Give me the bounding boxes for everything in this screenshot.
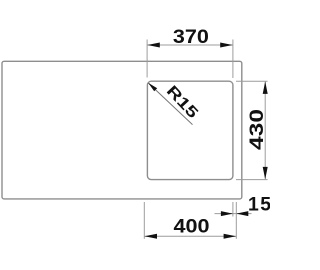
- dim 400 arrow left: [145, 234, 158, 239]
- dim 370 arrow right: [220, 43, 233, 48]
- dim 15 tail left: [215, 213, 233, 215]
- svg-text:400: 400: [174, 216, 210, 238]
- dim 430 extension line bottom: [236, 179, 268, 181]
- dim 15 arrow right (outside, pointing left): [236, 211, 248, 216]
- dim 430 extension line top: [236, 80, 268, 82]
- dim 400 dimension line: [145, 235, 236, 237]
- sink bowl: [147, 81, 233, 179]
- leader R15 arrowhead: [148, 83, 157, 92]
- dim 430 arrow top: [263, 81, 268, 94]
- dim 370 dimension line: [147, 44, 232, 46]
- dim 370 arrow left: [147, 43, 160, 48]
- leader R15 line: [149, 83, 193, 124]
- dim 15 tail right: [236, 213, 251, 215]
- dim 15 arrow left (outside, pointing right): [221, 211, 233, 216]
- dim 400 / dim 15 shared extension line right: [235, 202, 237, 239]
- svg-text:430: 430: [246, 109, 268, 150]
- dim 15 dimension line: [229, 213, 240, 215]
- dim 15 extension line left: [232, 202, 234, 217]
- dim 400 extension line left: [143, 202, 145, 239]
- dim 370 extension line right: [232, 40, 234, 79]
- dim 400 arrow right: [224, 234, 237, 239]
- svg-text:370: 370: [173, 26, 209, 48]
- dim 430 dimension line: [264, 82, 266, 180]
- dim 430 arrow bottom: [263, 167, 268, 180]
- dim 370 extension line left: [146, 40, 148, 78]
- worktop outline: [2, 61, 242, 199]
